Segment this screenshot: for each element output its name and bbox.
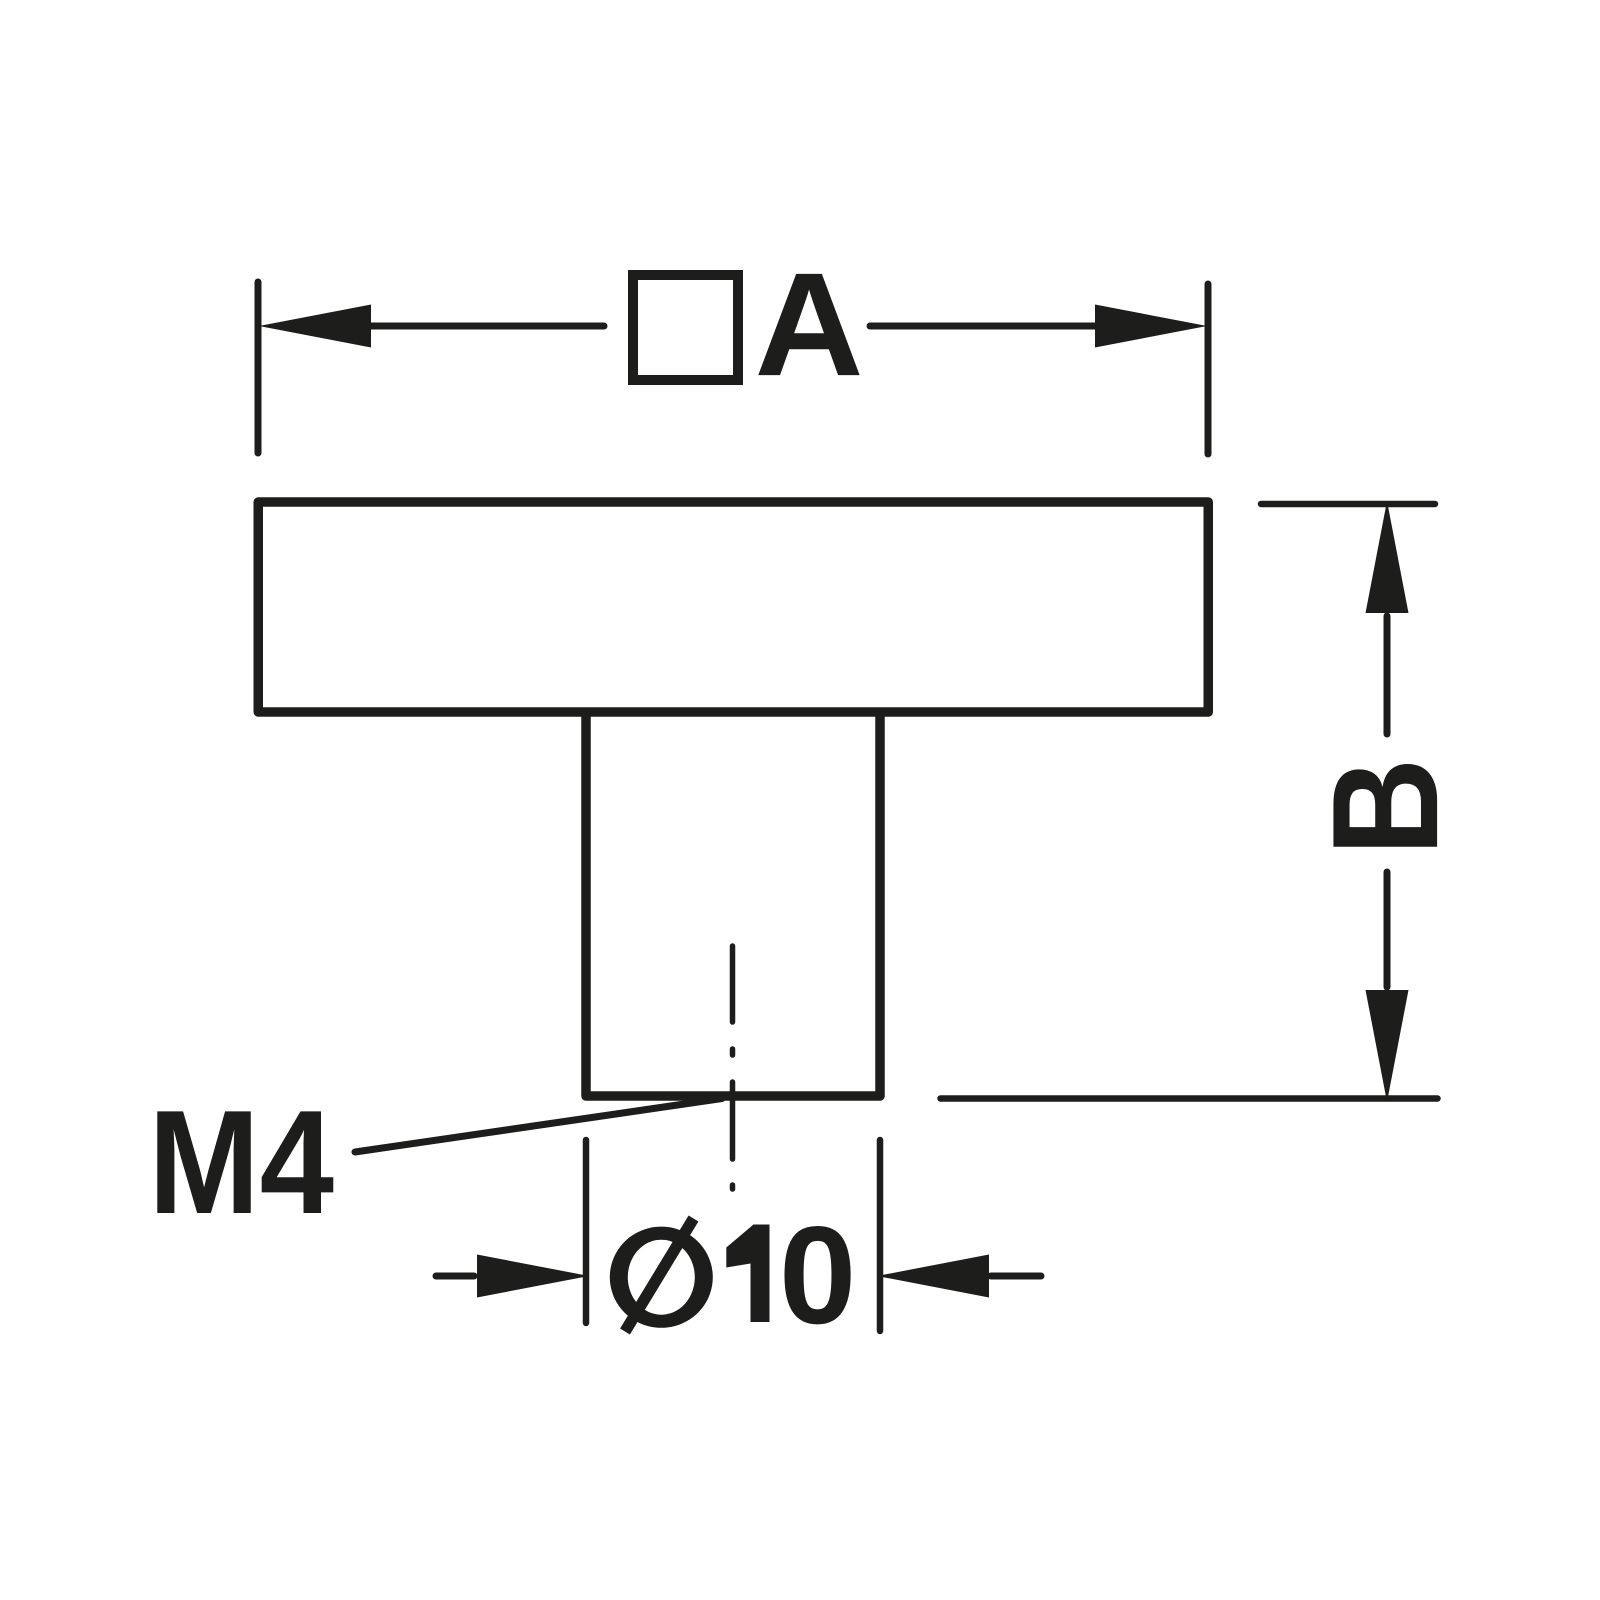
digit 1 of diameter 10 <box>726 1225 769 1323</box>
svg-text:0: 0 <box>779 1198 856 1353</box>
svg-text:A: A <box>755 242 864 407</box>
dimension tail line right of diameter 10 <box>991 1273 1041 1280</box>
extension line right of dimension A <box>1205 284 1212 454</box>
centerline dash segment 2 <box>730 1082 736 1159</box>
dimension line B lower segment <box>1384 872 1391 987</box>
arrowhead left of diameter 10 pointing right <box>477 1255 589 1298</box>
extension line left of dimension A <box>255 282 262 453</box>
centerline dot 2 <box>730 1185 736 1189</box>
square symbol of label A <box>633 275 738 380</box>
dimension line A left segment <box>370 323 604 330</box>
arrowhead right of diameter 10 pointing left <box>877 1255 989 1298</box>
diameter symbol slash of label diameter 10 <box>625 1219 694 1332</box>
knob head rectangle <box>258 502 1208 712</box>
arrowhead top of dimension B <box>1366 501 1409 613</box>
svg-text:B: B <box>1302 758 1470 856</box>
arrowhead left of dimension A <box>259 305 371 348</box>
centerline dot 1 <box>730 1049 736 1055</box>
knob stem outline <box>586 711 880 1096</box>
dimension line A right segment <box>870 323 1096 330</box>
extension line bottom of dimension B <box>941 1095 1438 1102</box>
extension line right of dimension diameter 10 <box>877 1140 884 1331</box>
dimension line B upper segment <box>1384 616 1391 734</box>
arrowhead bottom of dimension B <box>1366 990 1409 1102</box>
extension line left of dimension diameter 10 <box>583 1140 590 1323</box>
svg-text:M4: M4 <box>148 1079 334 1245</box>
diameter symbol ring of label diameter 10 <box>610 1227 713 1328</box>
extension line top of dimension B <box>1261 501 1435 508</box>
leader line from M4 label to stem base <box>355 1099 722 1153</box>
arrowhead right of dimension A <box>1095 305 1207 348</box>
centerline dash segment 1 <box>730 946 736 1022</box>
dimension tail line left of diameter 10 <box>436 1273 474 1280</box>
